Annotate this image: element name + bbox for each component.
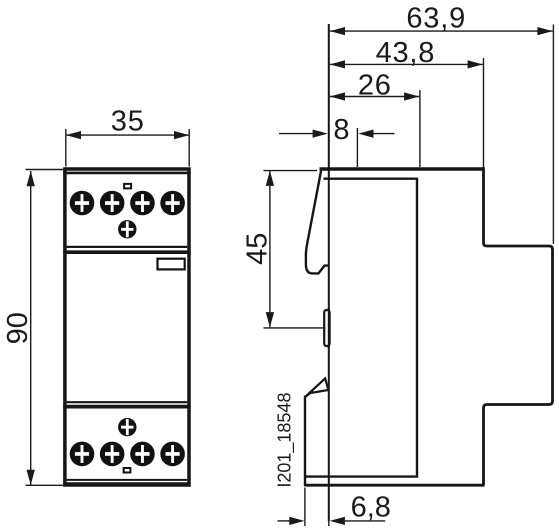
arrowhead 8 left (pointing right) bbox=[313, 130, 328, 138]
svg-text:8: 8 bbox=[333, 114, 349, 146]
dimension line 26 bbox=[330, 96, 420, 98]
bottom edge thickening line bbox=[63, 482, 191, 484]
leader line left of 8 bbox=[279, 133, 314, 135]
arrowhead 26 right bbox=[404, 92, 419, 100]
side profile bottom edge bbox=[305, 484, 485, 487]
side profile top edge bbox=[320, 167, 484, 170]
lower DIN claw hook bbox=[305, 378, 328, 396]
arrowhead 90 bottom bbox=[27, 470, 35, 485]
arrowhead 8 right (pointing left) bbox=[358, 130, 373, 138]
svg-text:26: 26 bbox=[358, 70, 392, 102]
inner face plate outline top bbox=[324, 177, 416, 179]
arrowhead 45 top bbox=[266, 171, 274, 186]
screw terminal B4 bbox=[160, 442, 185, 467]
arrowhead 6,8 right (pointing left) bbox=[330, 517, 345, 525]
leader line right of 8 bbox=[372, 133, 395, 135]
screw terminal T1 bbox=[70, 191, 95, 216]
dimension line 35 bbox=[66, 134, 189, 136]
small coil screw bottom bbox=[118, 418, 136, 436]
separator upper thick line bbox=[63, 250, 191, 254]
DIN clip tab bbox=[324, 310, 329, 346]
side profile front slanted face and upper DIN claw bbox=[306, 170, 329, 274]
extension line left of 35 bbox=[65, 129, 67, 167]
marker rectangle top bbox=[124, 184, 131, 189]
arrowhead 63,9 left bbox=[330, 27, 345, 35]
small coil screw top bbox=[118, 220, 136, 238]
extension line right of 63,9 bbox=[552, 25, 554, 245]
DIN rail mounting plane line over tab bbox=[328, 308, 330, 348]
extension line top of 45 bbox=[264, 170, 318, 172]
extension line right of 8 bbox=[356, 128, 358, 167]
side profile right step outline bbox=[484, 167, 553, 485]
bottom inner edge line bbox=[67, 479, 188, 481]
arrowhead 6,8 left (pointing right) bbox=[289, 517, 304, 525]
extension line left of 6,8 bbox=[304, 488, 306, 527]
front body outline bbox=[65, 169, 189, 485]
dimension line 45 bbox=[269, 171, 271, 328]
screw terminal B2 bbox=[100, 442, 125, 467]
screw terminal B1 bbox=[70, 442, 95, 467]
inner face plate outline bottom bbox=[306, 475, 416, 477]
extension line right of 43,8 bbox=[483, 58, 485, 168]
label window rectangle middle right bbox=[158, 259, 185, 270]
dimension line 63,9 bbox=[330, 30, 553, 32]
arrowhead 45 bottom bbox=[266, 312, 274, 327]
extension line bottom of 90 bbox=[26, 484, 64, 486]
arrowhead 43,8 right bbox=[468, 60, 483, 68]
separator upper thin line bbox=[67, 246, 188, 248]
dimension line 90 bbox=[30, 171, 32, 485]
screw terminal T4 bbox=[160, 191, 185, 216]
arrowhead 35 left bbox=[66, 131, 81, 139]
DIN clip slider left edge bbox=[304, 396, 306, 487]
DIN rail mounting plane line bbox=[328, 24, 330, 521]
arrowhead 63,9 right bbox=[537, 27, 552, 35]
extension line bottom of 45 bbox=[264, 327, 326, 329]
svg-text:63,9: 63,9 bbox=[406, 2, 466, 34]
arrowhead 26 left bbox=[330, 92, 345, 100]
front body top inner edge line bbox=[63, 172, 191, 175]
svg-text:43,8: 43,8 bbox=[376, 37, 436, 69]
dimension line 43,8 bbox=[330, 63, 483, 65]
screw terminal T3 bbox=[130, 191, 155, 216]
arrowhead 90 top bbox=[27, 171, 35, 186]
extension line right of 6,8 (mount plane, extended) bbox=[328, 521, 330, 526]
svg-text:35: 35 bbox=[111, 106, 145, 138]
leader line left of 6,8 bbox=[278, 520, 292, 522]
marker rectangle bottom bbox=[124, 468, 131, 473]
svg-text:45: 45 bbox=[241, 233, 273, 265]
arrowhead 35 right bbox=[174, 131, 189, 139]
screw terminal B3 bbox=[130, 442, 155, 467]
extension line top of 90 bbox=[26, 169, 64, 171]
svg-text:6,8: 6,8 bbox=[351, 492, 391, 524]
separator lower thick line bbox=[63, 405, 191, 409]
arrowhead 43,8 left bbox=[330, 60, 345, 68]
leader line right of 6,8 bbox=[344, 520, 385, 522]
extension line right of 26 bbox=[419, 90, 421, 167]
svg-text:I201_18548: I201_18548 bbox=[275, 393, 296, 488]
separator lower thin line bbox=[67, 401, 188, 403]
svg-text:90: 90 bbox=[2, 312, 34, 344]
screw terminal T2 bbox=[100, 191, 125, 216]
extension line right of 35 bbox=[188, 129, 190, 167]
inner face plate outline right bbox=[416, 178, 418, 478]
